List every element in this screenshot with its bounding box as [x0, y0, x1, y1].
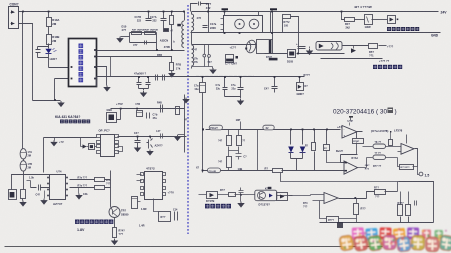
wire R102 to vertical — [291, 17, 299, 54]
resistor R60 — [21, 190, 26, 199]
wire signal run to comparators — [206, 129, 341, 131]
resistor R40 2k2 — [345, 18, 355, 22]
transformer T1 secondary winding B — [192, 45, 194, 66]
diode D82 box — [277, 193, 288, 201]
label fast output signal (CJK) — [373, 65, 402, 69]
wire LED to IC pin — [38, 54, 71, 68]
capacitor C20 electrolytic — [226, 55, 234, 63]
optocoupler U2 pin L4 — [97, 151, 101, 154]
ground — [210, 68, 216, 73]
wire bottoms to return — [401, 217, 409, 223]
watermark row1 tail small chars — [422, 230, 431, 239]
resistor pill X2 — [263, 125, 274, 130]
transistor Q45 — [150, 137, 152, 139]
wire into D70 — [199, 194, 229, 196]
resistor vertical on feedback — [176, 107, 180, 115]
ground small — [309, 47, 311, 49]
wire U2c power — [406, 135, 408, 144]
capacitor small — [161, 134, 163, 139]
capacitor C66 — [236, 151, 242, 160]
wire to bottom-left block — [23, 172, 25, 190]
resistor R70 on X2 row — [273, 169, 283, 173]
wire bottom ground rail — [5, 246, 383, 248]
wire secondary ground rail — [191, 32, 441, 34]
electrolytic C41 10u — [202, 77, 204, 83]
capacitor C+ series — [298, 47, 306, 49]
transistor Q40 box — [365, 15, 373, 25]
wire X2 row continue — [282, 170, 345, 172]
wire top rail primary — [19, 11, 185, 13]
U6 pin L2 — [141, 180, 144, 183]
wire bottom return rail — [320, 222, 434, 224]
capacitor C LED bypass — [38, 44, 49, 50]
wire R87 to node — [385, 191, 398, 193]
wire drop to return rail — [257, 130, 259, 171]
op-amp U2d — [324, 193, 338, 204]
wire snubber top branch — [130, 33, 157, 43]
wire GND box to node — [117, 109, 121, 120]
watermark row1 — [352, 227, 364, 239]
wire ladder link — [229, 147, 239, 151]
wire down to drain — [171, 25, 173, 51]
capacitor C1A — [163, 12, 165, 19]
capacitor C80 — [415, 201, 417, 206]
wire U6 left pins — [137, 175, 142, 181]
capacitor C61 series — [31, 187, 50, 189]
wire Q70 to D82 to U2d — [289, 195, 311, 196]
electrolytic C65 — [132, 197, 138, 209]
ground — [171, 71, 173, 72]
mark below phone — [349, 116, 353, 118]
wire X2 row — [203, 170, 273, 172]
resistor R102 — [283, 15, 291, 19]
resistor R10B — [47, 35, 52, 45]
electrolytic C10B vertical oval — [23, 159, 25, 161]
diode D105 — [288, 50, 296, 58]
label KIA431 line2 (CJK) — [60, 120, 90, 124]
capacitor C45 — [135, 137, 141, 147]
connector pin 1 — [11, 10, 15, 13]
wire op2 loop — [341, 155, 358, 163]
U5 pin L4 — [47, 195, 49, 197]
U5 pin L1 — [47, 177, 49, 179]
wire R71 to cap node — [235, 194, 255, 196]
capacitor C31 — [204, 45, 206, 55]
resistor ladder R66 — [228, 130, 230, 136]
U6 pin R4 — [163, 193, 166, 196]
resistor R64 — [113, 228, 117, 238]
U5 pin L3 — [47, 189, 49, 191]
ground — [104, 86, 110, 91]
wire mid row 2 — [367, 157, 398, 159]
wire rect module top right to rail — [258, 12, 260, 16]
wire module x272 vertical — [272, 12, 274, 40]
op-amp U2a — [342, 126, 357, 139]
GND reference box — [107, 113, 117, 123]
ground — [58, 101, 64, 106]
wire R10A to R10B — [48, 27, 50, 35]
wire snubber ground link — [121, 36, 130, 38]
feedback resistor R84 box — [400, 165, 414, 170]
wire y183 left segment — [281, 173, 399, 182]
transformer T1 primary winding — [184, 12, 186, 21]
capacitor C44 — [272, 77, 278, 93]
ground on frame — [54, 138, 56, 141]
wire U5 right pins — [70, 180, 95, 188]
optocoupler U2 pin R4 — [115, 151, 119, 154]
wire pin2 to mid rail — [110, 57, 112, 77]
transformer core isolation dashed line — [187, 5, 189, 234]
wire opto right lower pin — [118, 147, 123, 152]
wire snubber to drain — [156, 33, 158, 51]
wire Q70 box out — [277, 195, 293, 197]
label charge controller control (CJK) — [387, 27, 419, 31]
resistor R1 top — [171, 12, 173, 16]
ground on shield — [183, 98, 189, 103]
wire IC to ground — [97, 67, 107, 86]
capacitor C32 — [208, 45, 210, 55]
output terminal 1.5V — [419, 172, 423, 176]
feedback box R86 under U2d — [327, 217, 339, 223]
feedback resistor R2M box — [353, 139, 364, 144]
wire elec down to X2 node — [202, 93, 204, 173]
resistor R4A 1N4007 — [132, 32, 142, 35]
LED D1 — [48, 47, 50, 49]
capacitor C17a 2200u — [208, 12, 210, 33]
wire drop to R40 — [342, 12, 345, 20]
resistor R85 vertical — [356, 199, 358, 204]
wire to series resistor R87 — [367, 192, 375, 199]
label DC voltage output signal (CJK) — [75, 220, 113, 224]
wire feedback row y105 — [111, 108, 185, 110]
wire resistors to Q base column — [105, 171, 111, 207]
wire U2d output — [339, 198, 367, 200]
wire connector pin2 to vertical — [19, 24, 33, 101]
KIA431 sub-circuit caps — [137, 77, 142, 89]
wire Q60 emitter — [114, 218, 116, 228]
transistor Q70 D13005 box — [255, 190, 277, 201]
optocoupler U3 body — [316, 42, 342, 51]
IC U1 pin dots right — [94, 49, 96, 51]
op-amp U6 body — [145, 172, 163, 200]
mark on return wire — [268, 187, 272, 189]
wire tall box right — [282, 19, 284, 33]
wire secondary B taps — [191, 33, 193, 69]
IC U1 vertical blue label — [79, 44, 84, 49]
capacitor C40 series on rail — [156, 75, 165, 81]
U5 pin R1 — [66, 177, 68, 179]
wire U2d inputs — [311, 195, 325, 201]
small mark top of watermark area — [337, 222, 343, 228]
junction mark J2 — [270, 8, 277, 10]
watermark logo colored characters — [339, 227, 451, 252]
ground — [117, 37, 123, 42]
wire U2b output — [358, 158, 367, 168]
electrolytic C10A vertical oval — [20, 149, 26, 159]
wire 44V rail — [192, 44, 257, 46]
capacitor C1B — [148, 12, 150, 19]
resistor pill R90 — [373, 144, 386, 148]
resistor R87 — [375, 190, 386, 195]
diode MZ2 — [163, 21, 165, 29]
optocoupler U2 pin L2 — [97, 141, 101, 144]
wire U2c output — [415, 149, 418, 167]
diode D70 box — [207, 192, 218, 199]
resistor R71 — [229, 193, 236, 197]
ground — [44, 191, 46, 199]
wire caps to ground — [225, 97, 241, 99]
U6 pin R1 — [163, 173, 166, 176]
diode D45 box — [299, 77, 301, 83]
wire opto top run — [118, 136, 187, 138]
wire U2d feedback loop — [320, 201, 357, 219]
wire R41 out — [379, 45, 387, 47]
capacitor C42 22u — [223, 77, 228, 97]
op-amp U5 AZ4558 body — [50, 175, 66, 200]
resistor R62 — [95, 178, 105, 182]
U6 pin L4 — [141, 193, 144, 196]
diode D30 — [81, 138, 83, 147]
ground — [22, 199, 24, 201]
watermark row2 — [339, 235, 354, 251]
resistor R63 — [95, 186, 105, 190]
wire secondary top rail 24V — [192, 11, 439, 13]
capacitor C4 snubber — [145, 41, 147, 45]
wire vertical to y183 rail — [397, 182, 399, 192]
resistor R4B 1N4007 — [145, 32, 156, 35]
optocoupler U2 pin L3 — [97, 145, 101, 148]
connector pin 2 — [11, 22, 15, 25]
U5 pin L2 — [47, 183, 49, 185]
U6 pin L3 — [141, 187, 144, 190]
op-amp U2c (right) — [401, 144, 414, 155]
wire U2a power — [349, 123, 351, 126]
resistor R89 vertical — [408, 192, 410, 205]
capacitor snubber loop top — [191, 4, 209, 12]
wire left vertical bus — [22, 12, 24, 149]
rectifier module D100 (dual diode) — [224, 12, 226, 16]
transformer T1 secondary winding A — [191, 12, 193, 15]
U6 pin R2 — [163, 180, 166, 183]
wire source pin to Rs — [97, 57, 172, 63]
wire U6 bottom links — [138, 199, 159, 212]
wire diode bottoms — [291, 159, 303, 171]
ground under pin row — [78, 188, 80, 194]
fuse F1 (lamp symbol) — [245, 39, 257, 54]
wire IC pin 2 left — [55, 79, 71, 101]
label D bar — [269, 58, 278, 61]
IC U1 pin dots left — [71, 66, 73, 68]
rectifier circle 1 — [235, 19, 245, 29]
capacitor C4b — [147, 113, 150, 119]
diode D40 — [388, 16, 396, 24]
diode D81 — [302, 130, 304, 145]
optocoupler U2 pin L1 — [97, 135, 101, 138]
wire fast signal row2 — [321, 58, 383, 60]
wire C71 ground — [240, 195, 242, 202]
resistor R41 — [369, 44, 378, 49]
capacitor C43 22u — [238, 77, 244, 97]
resistor R88 vertical — [400, 192, 402, 205]
junction mark J1 — [222, 8, 229, 10]
wire U2a output — [357, 132, 363, 139]
U6 pin R3 — [163, 187, 166, 190]
box R30 — [89, 144, 95, 150]
wire R10B to LED — [48, 44, 50, 49]
wire mid row 1 — [363, 146, 401, 148]
resistor pill P10-2R on lower row — [208, 168, 221, 173]
resistor Rs — [170, 63, 174, 71]
U5 pin R3 — [66, 189, 68, 191]
optocoupler U2 pin R1 — [115, 135, 119, 138]
rectifier pins — [221, 19, 224, 30]
capacitor C14 — [175, 212, 178, 221]
wire fast signal row1 — [343, 45, 369, 47]
op-amp U1 switching controller IC — [69, 39, 97, 87]
connector CON2 — [9, 7, 19, 29]
mark right of R1 — [177, 24, 181, 27]
electrolytic C4b — [137, 111, 143, 117]
resistor ladder R67 — [228, 147, 230, 157]
wire feedback frame top — [44, 138, 97, 173]
resistor R83 vertical — [389, 140, 393, 146]
op-amp U2b — [344, 161, 358, 174]
U5 pin R2 — [66, 183, 68, 185]
capacitor C71 — [239, 188, 244, 195]
label output rail control signal (CJK) — [205, 204, 231, 209]
resistor R68 — [238, 130, 240, 136]
wire cap bottoms — [192, 67, 213, 69]
wire to R10A — [48, 12, 50, 18]
resistor pill P10-2 — [209, 125, 222, 130]
relay K1 box — [257, 40, 273, 54]
transistor Q60 S8550 — [109, 207, 120, 218]
resistor R10A — [47, 18, 52, 27]
wire top return y183 — [399, 182, 434, 223]
wire R40 to Q — [355, 19, 365, 21]
thermistor XT box — [9, 190, 17, 200]
wire lower secondary run — [265, 53, 345, 55]
wire snubber bottom branch — [130, 42, 157, 44]
wire ground run under IC — [33, 100, 61, 102]
node mark — [236, 56, 239, 59]
wire U2c inputs — [398, 151, 401, 153]
ground — [114, 238, 116, 239]
wire x184 mid vertical — [184, 95, 186, 153]
wire Q to D — [372, 19, 388, 21]
diode D80 — [290, 130, 292, 145]
wire top row bottom-left — [12, 175, 50, 190]
optocoupler U2 pin R3 — [115, 145, 119, 148]
wire tall box left — [270, 12, 272, 33]
U5 pin R4 — [66, 195, 68, 197]
resistor R80 — [314, 130, 316, 143]
resistor R65 box — [159, 212, 171, 222]
resistor R81 box — [326, 130, 328, 145]
rectifier circle 2 — [249, 19, 259, 29]
capacitor series on feedback — [161, 105, 163, 113]
U6 pin L1 — [141, 173, 144, 176]
wire drain line pin to transformer — [97, 50, 185, 52]
ground right of opto — [178, 134, 185, 136]
resistor pill R91 — [373, 155, 386, 159]
node junction — [22, 11, 24, 13]
wire VCC mid rail — [97, 76, 305, 78]
watermark sparkle dots — [344, 247, 346, 249]
optocoupler U2 pin R2 — [115, 141, 119, 144]
optocoupler U2 PC817 body — [101, 135, 115, 157]
diode arrow to ground — [351, 48, 356, 53]
